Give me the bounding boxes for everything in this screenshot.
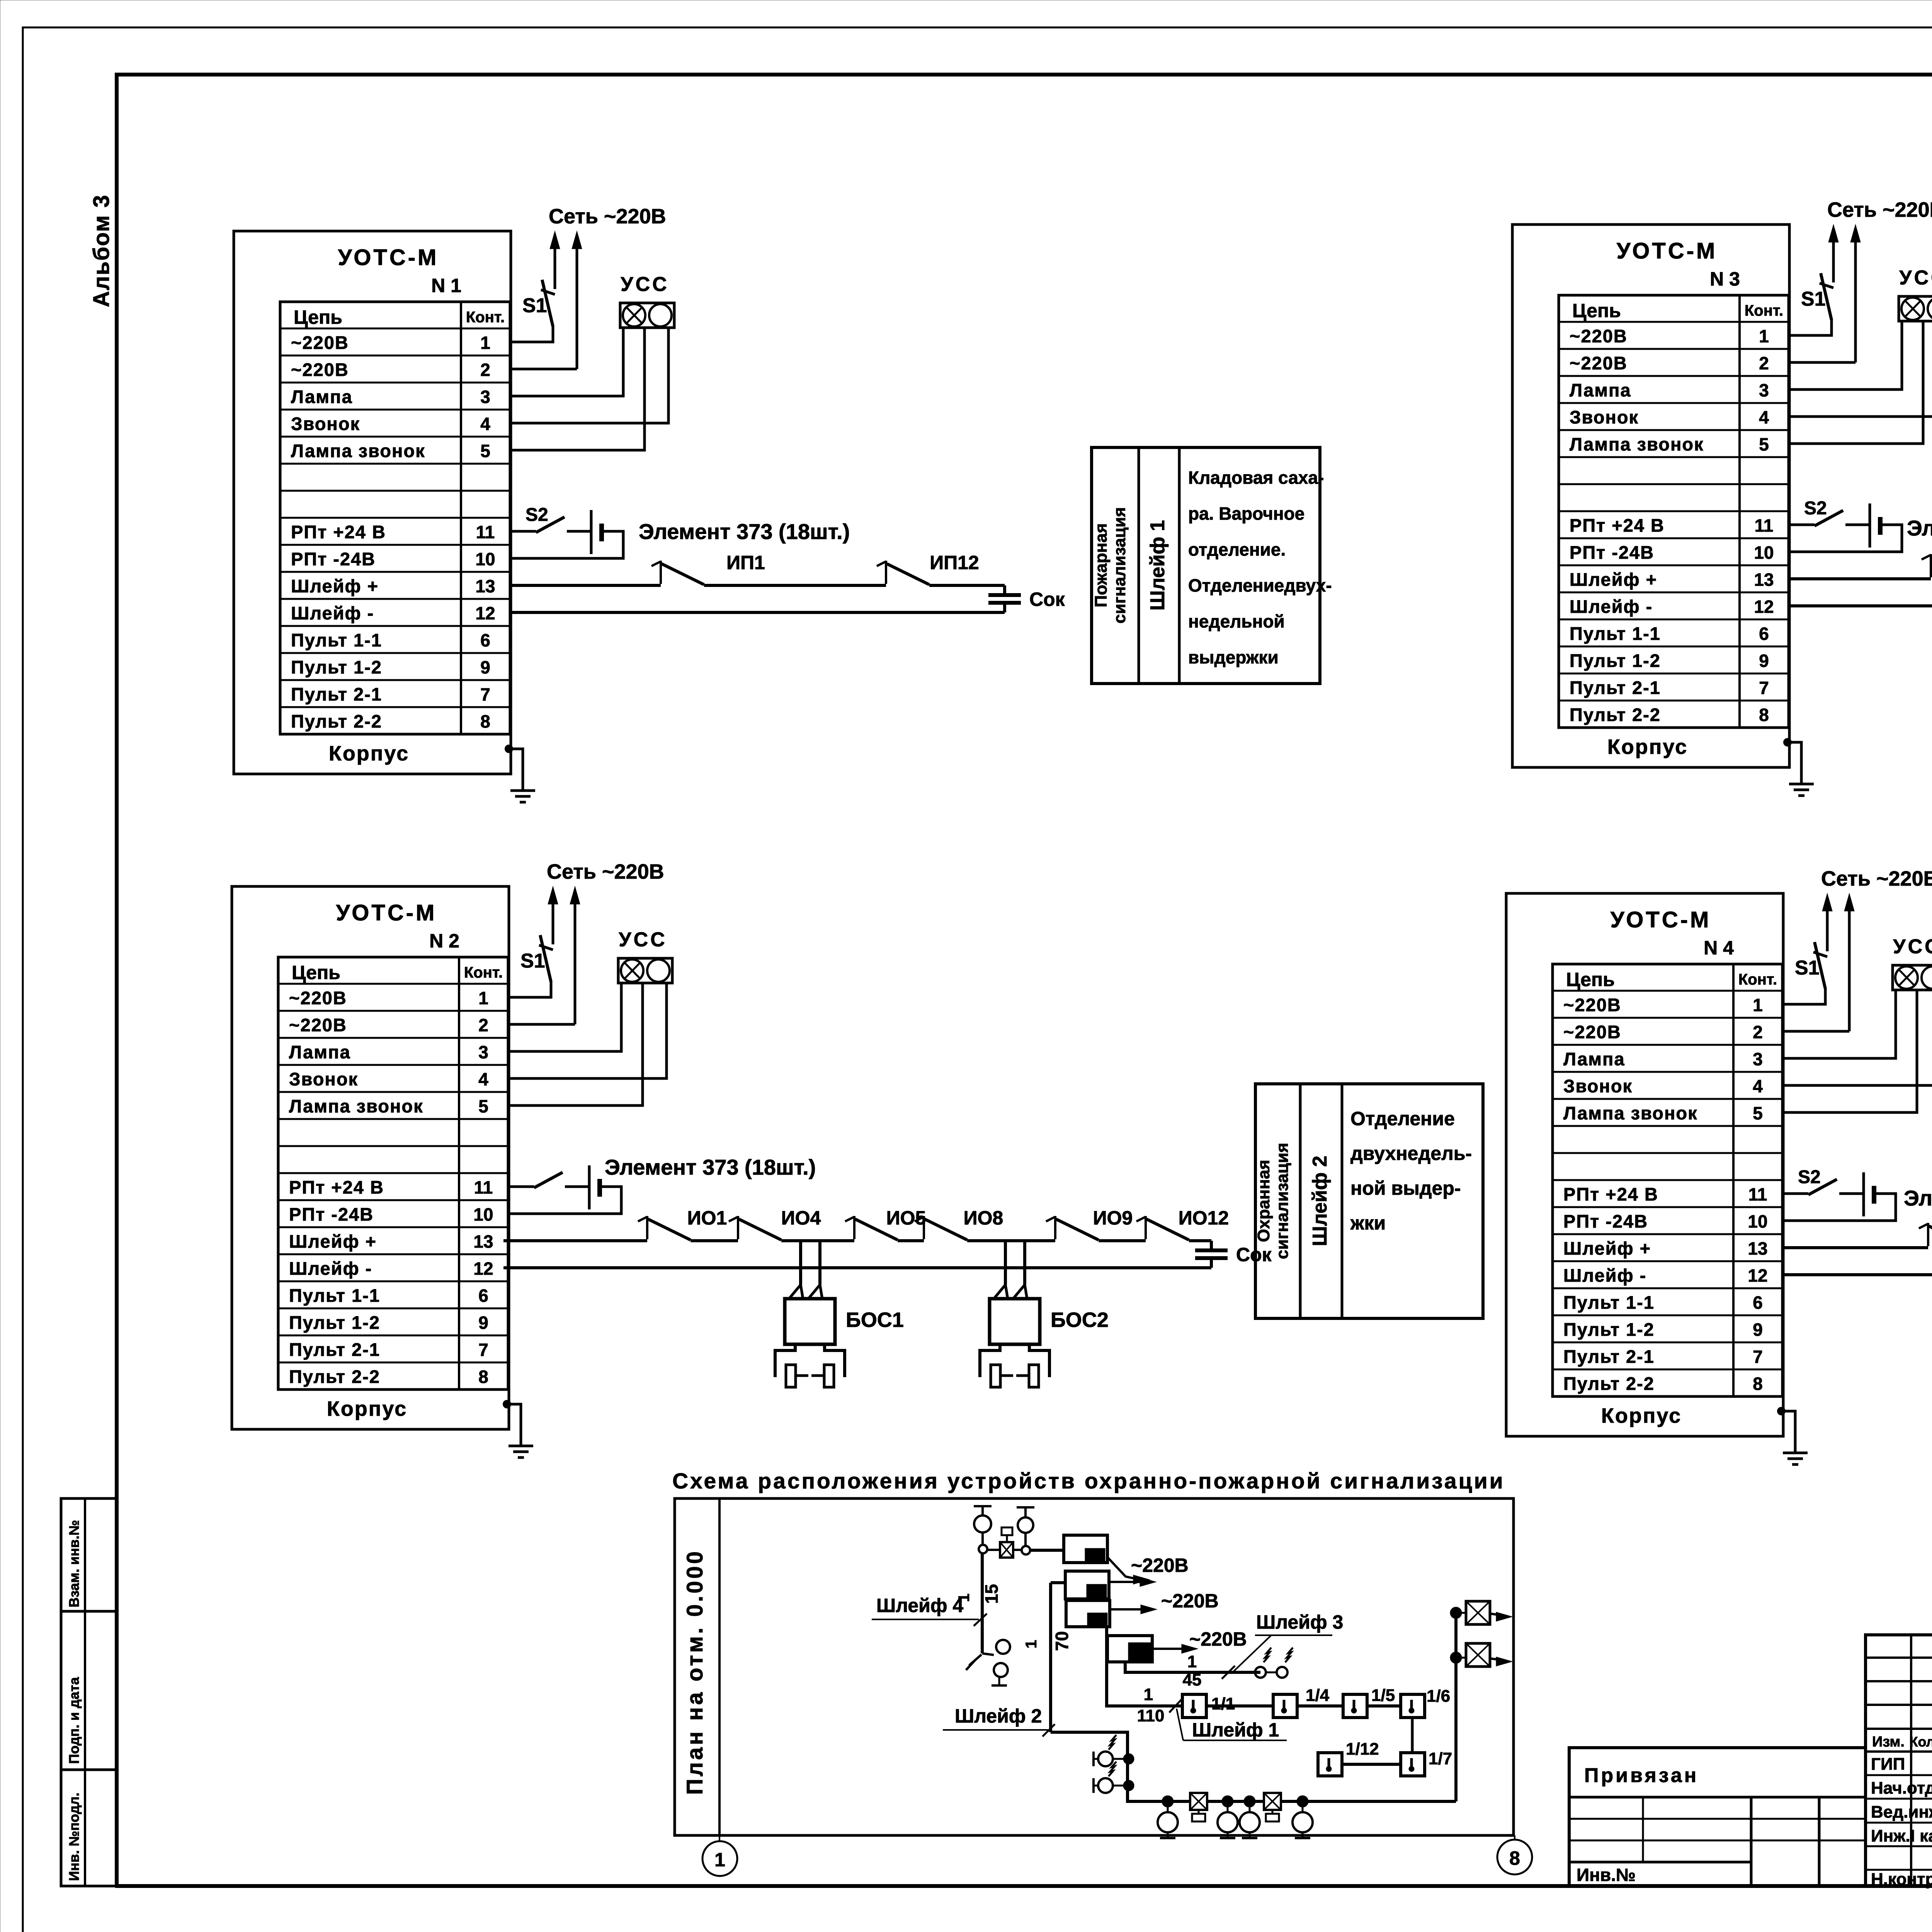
svg-text:12: 12 [1748,1265,1767,1286]
svg-text:S2: S2 [1804,498,1827,519]
plan: heat detector 1/6 [1401,1694,1425,1718]
device unit УОТС-М N2 enclosure [232,860,672,1458]
switch S2 with battery [1782,1192,1808,1195]
plan: heat detector 1/4 [1273,1694,1297,1718]
svg-text:1: 1 [1753,995,1763,1015]
svg-text:Пульт 1-1: Пульт 1-1 [1570,623,1661,644]
svg-text:РПт +24 В: РПт +24 В [1563,1184,1658,1204]
svg-text:ра. Варочное: ра. Варочное [1188,503,1304,524]
svg-text:13: 13 [473,1231,493,1252]
svg-text:6: 6 [1753,1293,1763,1313]
wire pin4 to УСС [1782,990,1932,1085]
plan: wire to station 1 [1030,1549,1064,1552]
svg-text:Цепь: Цепь [294,306,342,328]
svg-text:13: 13 [1748,1238,1767,1259]
svg-text:2: 2 [480,360,490,380]
svg-text:Пульт 2-2: Пульт 2-2 [291,711,382,731]
plan: heat detector 1/1 [1182,1694,1206,1718]
svg-text:Шлейф -: Шлейф - [291,603,374,623]
plan: loop 4 end devices [982,1653,994,1655]
plan: crossed valve at 3102 [1190,1793,1207,1810]
svg-text:9: 9 [480,657,490,677]
svg-text:~220В: ~220В [291,359,349,380]
switch S1 [508,981,551,997]
svg-text:~220В: ~220В [1189,1628,1247,1650]
svg-text:недельной: недельной [1188,611,1285,631]
signal block БОС1 taps [799,1241,802,1285]
svg-text:2: 2 [1753,1022,1763,1042]
svg-text:Пульт 1-2: Пульт 1-2 [291,657,382,677]
svg-text:Цепь: Цепь [1566,969,1615,990]
svg-text:ИО1: ИО1 [687,1207,727,1229]
svg-text:выдержки: выдержки [1188,647,1279,667]
svg-text:Шлейф +: Шлейф + [1563,1238,1651,1259]
wire pin3 to УСС [1789,321,1902,389]
switch S1 [510,326,553,342]
svg-text:Шлейф -: Шлейф - [1563,1265,1646,1286]
svg-text:~220В: ~220В [1570,353,1628,373]
battery Элемент 373 [588,1165,591,1209]
detector contact ИО8 [923,1216,925,1239]
mains arrows Сеть ~220В [1826,909,1829,951]
ground symbol [1789,783,1814,786]
svg-text:РПт -24В: РПт -24В [289,1204,374,1225]
svg-text:Шлейф -: Шлейф - [1570,596,1653,617]
svg-text:S1: S1 [520,950,545,972]
svg-text:ИО4: ИО4 [781,1207,821,1229]
svg-text:~220В: ~220В [289,988,347,1008]
battery Элемент 373 [1862,1172,1865,1216]
svg-text:Корпус: Корпус [1607,735,1688,759]
switch S2 with battery [510,530,536,533]
floor plan frame [675,1498,1514,1835]
plan: loop 2 descent [1051,1732,1456,1801]
svg-text:S2: S2 [1798,1167,1821,1187]
svg-text:Инв. №подл.: Инв. №подл. [66,1793,82,1881]
svg-text:Схема расположения устройств о: Схема расположения устройств охранно-пож… [672,1469,1505,1493]
svg-text:Кладовая саха-: Кладовая саха- [1188,468,1324,488]
stamp box Инв. №подл. [61,1770,116,1886]
detector contact ИО9 [1054,1216,1056,1239]
svg-text:Н.контр.: Н.контр. [1871,1870,1932,1889]
plan: loop 1 line [1107,1627,1182,1706]
svg-text:Подп. и дата: Подп. и дата [66,1677,82,1764]
svg-text:УОТС-М: УОТС-М [338,245,439,270]
mains arrows Сеть ~220В [554,247,556,289]
svg-text:БОС1: БОС1 [846,1308,904,1332]
loop 1 wire Шлейф- [511,611,1005,614]
plan: loop 2 riser [1049,1583,1052,1732]
ground wire from Корпус [1784,738,1791,746]
svg-text:S1: S1 [1801,288,1826,310]
svg-text:Звонок: Звонок [1570,407,1639,427]
svg-text:План на отм. 0.000: План на отм. 0.000 [682,1549,707,1795]
svg-text:Шлейф 1: Шлейф 1 [1146,520,1169,611]
ground wire from Корпус [1777,1407,1785,1415]
plan: crossed valve at 3293 [1264,1793,1281,1810]
svg-text:13: 13 [1754,570,1774,590]
svg-text:4: 4 [1759,407,1769,427]
svg-text:РПт -24В: РПт -24В [1570,542,1654,563]
svg-text:5: 5 [1753,1103,1763,1123]
svg-text:11: 11 [476,522,495,542]
svg-text:10: 10 [1748,1211,1767,1231]
plan: exit siren top [1451,1608,1461,1618]
svg-text:Кол.уч.: Кол.уч. [1910,1734,1932,1750]
svg-text:1/1: 1/1 [1211,1694,1235,1713]
svg-text:11: 11 [1748,1184,1767,1204]
svg-text:~220В: ~220В [1563,995,1621,1015]
plan: call point at 3177 [1223,1796,1233,1806]
svg-text:4: 4 [478,1069,488,1089]
svg-text:10: 10 [475,549,495,569]
plan: heat detector 1/5 [1343,1694,1367,1718]
svg-text:ГИП: ГИП [1871,1755,1905,1774]
svg-text:Сеть ~220В: Сеть ~220В [1821,867,1932,890]
svg-text:1/4: 1/4 [1306,1686,1330,1705]
device unit УОТС-М N1 enclosure [234,205,674,802]
svg-text:Звонок: Звонок [291,413,360,434]
plan: bell post 1 [974,1505,992,1507]
svg-text:Пульт 2-1: Пульт 2-1 [291,684,382,704]
axis circle 8 [1514,1835,1515,1840]
wire pin3 to УСС [510,328,623,396]
svg-text:9: 9 [1753,1320,1763,1340]
svg-text:Пульт 1-1: Пульт 1-1 [291,630,382,650]
title block: revision table [1866,1635,1932,1886]
wire pin5 to УСС [508,983,643,1105]
svg-text:РПт +24 В: РПт +24 В [289,1177,384,1197]
svg-text:Пульт 2-2: Пульт 2-2 [1563,1373,1655,1394]
loop 3 wire Шлейф- [1789,604,1932,607]
svg-text:Взам. инв.№: Взам. инв.№ [66,1520,82,1607]
svg-text:ИП1: ИП1 [726,552,765,573]
svg-text:Шлейф 2: Шлейф 2 [955,1705,1042,1727]
svg-text:3: 3 [1753,1049,1763,1069]
plan: call point at 3371 [1298,1796,1308,1806]
svg-text:Пульт 2-2: Пульт 2-2 [289,1366,380,1387]
svg-text:Вед.инж.: Вед.инж. [1871,1803,1932,1821]
svg-text:Шлейф 1: Шлейф 1 [1192,1719,1279,1741]
svg-text:1: 1 [478,988,488,1008]
svg-text:УСС: УСС [621,273,669,296]
signal block БОС2 end-of-line terminals [980,1344,1000,1377]
svg-text:1: 1 [1759,326,1769,346]
svg-text:110: 110 [1137,1706,1165,1725]
svg-text:15: 15 [981,1584,1002,1604]
svg-text:Звонок: Звонок [1563,1076,1633,1096]
svg-text:жки: жки [1350,1212,1386,1234]
ground wire from Корпус [503,1400,511,1408]
plan: bell post 2 [1017,1506,1034,1509]
svg-text:Шлейф +: Шлейф + [289,1231,377,1252]
svg-text:9: 9 [478,1313,488,1333]
plan: heat detector 1/7 [1411,1718,1414,1753]
plan: control station box 4 [1107,1636,1152,1662]
wire pin5 to УСС [1782,990,1917,1112]
svg-text:Пульт 2-2: Пульт 2-2 [1570,704,1661,725]
detector contact ИП12 [885,561,887,584]
svg-text:Пульт 1-2: Пульт 1-2 [289,1312,380,1333]
svg-text:Отделениедвух-: Отделениедвух- [1188,575,1332,595]
svg-text:Шлейф 4: Шлейф 4 [876,1595,964,1616]
svg-text:Шлейф +: Шлейф + [291,576,379,596]
loop 2 wire Шлейф+ [503,1239,647,1242]
svg-text:ИО12: ИО12 [1179,1207,1229,1229]
detector contact ИО1 [1930,554,1932,577]
svg-text:РПт -24В: РПт -24В [291,549,376,569]
device unit УОТС-М N4 enclosure [1506,867,1932,1464]
svg-text:Инж.I кат: Инж.I кат [1871,1827,1932,1845]
svg-text:N 1: N 1 [431,275,461,296]
detector contact ИО1 [1927,1223,1929,1246]
svg-text:1/5: 1/5 [1371,1686,1395,1705]
svg-text:ной выдер-: ной выдер- [1350,1177,1461,1199]
signal block БОС1 end-of-line terminals [775,1344,795,1377]
switch S1 [1782,988,1825,1004]
svg-text:Привязан: Привязан [1584,1764,1699,1787]
svg-text:8: 8 [1753,1374,1763,1394]
svg-text:Корпус: Корпус [1601,1404,1682,1427]
svg-text:Шлейф 3: Шлейф 3 [1256,1611,1343,1633]
svg-text:N 2: N 2 [429,930,459,952]
loop label box [1092,447,1320,684]
svg-text:БОС2: БОС2 [1051,1308,1109,1332]
svg-text:Лампа звонок: Лампа звонок [1563,1103,1698,1123]
svg-text:1: 1 [1023,1640,1040,1648]
wire pin4 to УСС [1789,321,1932,417]
svg-text:Шлейф -: Шлейф - [289,1258,372,1279]
svg-text:11: 11 [1755,515,1774,536]
svg-text:6: 6 [480,630,490,650]
svg-text:5: 5 [478,1096,488,1116]
svg-text:РПт +24 В: РПт +24 В [1570,515,1665,536]
svg-text:45: 45 [1183,1670,1202,1689]
wire pin3 to УСС [508,983,621,1051]
svg-text:Конт.: Конт. [1745,302,1783,319]
loop 4 wire Шлейф+ [1783,1246,1928,1249]
svg-text:1: 1 [1187,1652,1197,1671]
wire pin4 to УСС [508,983,667,1078]
svg-text:3: 3 [480,387,490,407]
plan: loop 2 left call points [1124,1754,1133,1764]
svg-text:Корпус: Корпус [329,742,409,765]
ground symbol [509,1445,533,1447]
terminating capacitor Сок [1210,1241,1213,1250]
svg-text:Пульт 1-2: Пульт 1-2 [1570,650,1661,671]
loop 1 wire Шлейф+ [511,584,661,587]
mains arrows Сеть ~220В [552,902,554,944]
device unit УОТС-М N3 enclosure [1512,198,1932,796]
svg-text:10: 10 [1754,543,1774,563]
plan axis column [718,1498,721,1835]
svg-text:8: 8 [1759,705,1769,725]
svg-text:6: 6 [478,1286,488,1306]
plan: call point at 3022 [1163,1796,1173,1806]
svg-text:Шлейф +: Шлейф + [1570,569,1657,590]
detector contact ИО12 [1145,1216,1147,1239]
ground wire from Корпус [505,745,513,753]
loop label box [1255,1084,1483,1318]
svg-text:УОТС-М: УОТС-М [336,900,437,925]
terminating capacitor Сок [1003,585,1006,595]
signal block БОС2 taps [1004,1241,1007,1285]
svg-text:10: 10 [473,1204,493,1225]
svg-text:N 4: N 4 [1704,937,1734,959]
svg-text:12: 12 [1754,597,1774,617]
svg-text:1/6: 1/6 [1427,1687,1450,1706]
svg-text:сигнализация: сигнализация [1110,507,1129,623]
detector contact ИО1 [646,1216,648,1239]
svg-text:~220В: ~220В [1570,326,1628,346]
svg-text:двухнедель-: двухнедель- [1350,1143,1472,1164]
plan: call point at 3234 [1245,1796,1255,1806]
terminal table [1559,295,1789,728]
svg-text:1: 1 [480,333,490,353]
svg-text:5: 5 [1759,434,1769,454]
svg-text:3: 3 [478,1042,488,1062]
svg-text:9: 9 [1759,651,1769,671]
plan: loop 2 right riser [1454,1613,1458,1801]
svg-text:Пульт 1-1: Пульт 1-1 [1563,1292,1655,1313]
svg-text:11: 11 [474,1177,493,1197]
detector contact ИП1 [660,561,662,584]
plan: 220V tap 1 [1107,1557,1136,1579]
svg-text:Элемент 373 (18шт.): Элемент 373 (18шт.) [639,519,850,544]
plan: junction circle 1 [979,1545,987,1553]
svg-text:Шлейф 2: Шлейф 2 [1309,1156,1331,1246]
plan: control station box 1 [1064,1535,1107,1563]
svg-text:Отделение: Отделение [1350,1108,1455,1129]
signal block БОС2 body [990,1299,1040,1344]
svg-text:УОТС-М: УОТС-М [1611,907,1711,932]
svg-text:Пульт 1-2: Пульт 1-2 [1563,1319,1655,1340]
svg-text:4: 4 [480,414,490,434]
ground symbol [1783,1452,1808,1454]
svg-text:6: 6 [1759,624,1769,644]
plan: loop 3 feed from station 4 [1125,1662,1260,1672]
terminal table [278,957,508,1389]
svg-text:7: 7 [1753,1347,1763,1367]
svg-text:Лампа звонок: Лампа звонок [1570,434,1704,454]
svg-text:Лампа: Лампа [1563,1049,1625,1069]
svg-text:8: 8 [1509,1847,1520,1869]
terminal table [1553,964,1782,1396]
loop 2 wire Шлейф- [503,1266,1211,1269]
svg-text:Лампа звонок: Лампа звонок [291,440,425,461]
svg-text:Изм.: Изм. [1872,1734,1905,1750]
svg-text:13: 13 [475,576,495,596]
svg-text:1/12: 1/12 [1346,1740,1379,1759]
svg-text:Пульт 2-1: Пульт 2-1 [289,1339,380,1360]
battery Элемент 373 [590,510,593,554]
svg-text:Альбом 3: Альбом 3 [89,194,114,307]
svg-text:70: 70 [1052,1631,1072,1651]
svg-text:Конт.: Конт. [464,964,503,981]
plan: control station box 2 [1065,1571,1109,1599]
svg-text:12: 12 [475,603,495,623]
plan: exit siren bottom [1451,1653,1461,1663]
plan: crossed valve box [987,1549,1000,1551]
svg-text:УСС: УСС [1899,267,1932,289]
svg-text:1/7: 1/7 [1429,1749,1452,1768]
wire pin4 to УСС [510,328,668,423]
detector contact ИО4 [737,1216,739,1239]
detector contact ИО5 [853,1216,855,1239]
svg-text:~220В: ~220В [1161,1590,1219,1612]
svg-text:Элемент 373 (18 шт.): Элемент 373 (18 шт.) [1904,1186,1932,1210]
svg-text:Элемент 373 (18шт.): Элемент 373 (18шт.) [605,1155,816,1179]
wire pin3 to УСС [1782,990,1896,1058]
svg-text:~220В: ~220В [1131,1554,1189,1576]
svg-text:Пульт 1-1: Пульт 1-1 [289,1285,380,1306]
svg-text:Лампа: Лампа [289,1042,351,1062]
loop 4 wire Шлейф- [1783,1273,1932,1276]
svg-text:РПт -24В: РПт -24В [1563,1211,1648,1231]
svg-text:Пожарная: Пожарная [1092,523,1111,607]
plan: heat detector 1/12 [1318,1753,1342,1776]
svg-text:Конт.: Конт. [466,309,505,326]
svg-text:Конт.: Конт. [1738,971,1777,988]
svg-text:Лампа: Лампа [291,386,353,407]
svg-text:Сеть ~220В: Сеть ~220В [547,860,664,883]
svg-text:ИО9: ИО9 [1093,1207,1133,1229]
plan: control station box 3 [1066,1600,1110,1627]
svg-text:S1: S1 [1795,957,1820,979]
wire pin5 to УСС [1789,321,1923,444]
svg-text:1: 1 [714,1849,725,1871]
svg-text:Цепь: Цепь [292,962,340,983]
svg-text:4: 4 [1753,1076,1763,1096]
svg-text:N 3: N 3 [1710,268,1740,290]
svg-text:Звонок: Звонок [289,1069,358,1089]
svg-text:Сеть ~220В: Сеть ~220В [1827,198,1932,221]
svg-text:S1: S1 [522,294,547,317]
svg-text:Охранная: Охранная [1254,1160,1273,1242]
svg-text:ИП12: ИП12 [930,552,979,573]
svg-text:УСС: УСС [1893,935,1932,958]
svg-text:УСС: УСС [619,929,667,951]
terminal table [280,302,510,734]
svg-text:Корпус: Корпус [327,1397,407,1420]
svg-text:7: 7 [480,684,490,704]
switch S2 with battery [1789,524,1815,526]
title block: left zone [1569,1748,1866,1886]
svg-text:8: 8 [480,711,490,731]
plan: loop 3 end devices [1255,1667,1266,1678]
ground symbol [510,789,535,792]
svg-text:Сок: Сок [1029,588,1065,610]
plan: 220V tap 2 [1109,1581,1140,1583]
loop 3 wire Шлейф+ [1789,577,1931,580]
svg-text:Лампа: Лампа [1570,380,1631,400]
svg-text:2: 2 [478,1015,488,1035]
svg-text:УОТС-М: УОТС-М [1617,238,1718,264]
svg-text:Пульт 2-1: Пульт 2-1 [1563,1346,1655,1367]
svg-text:1: 1 [1144,1685,1153,1704]
svg-text:РПт +24 В: РПт +24 В [291,522,386,542]
signal block БОС1 body [785,1299,835,1344]
svg-text:S2: S2 [526,505,548,525]
svg-text:~220В: ~220В [289,1015,347,1035]
svg-text:3: 3 [1759,380,1769,400]
svg-text:Нач.отд.: Нач.отд. [1871,1779,1932,1798]
svg-text:7: 7 [1759,678,1769,698]
svg-text:12: 12 [473,1259,493,1279]
mains arrows Сеть ~220В [1832,240,1835,282]
axis circle 1 [719,1835,720,1842]
switch S2 with battery [508,1185,534,1188]
